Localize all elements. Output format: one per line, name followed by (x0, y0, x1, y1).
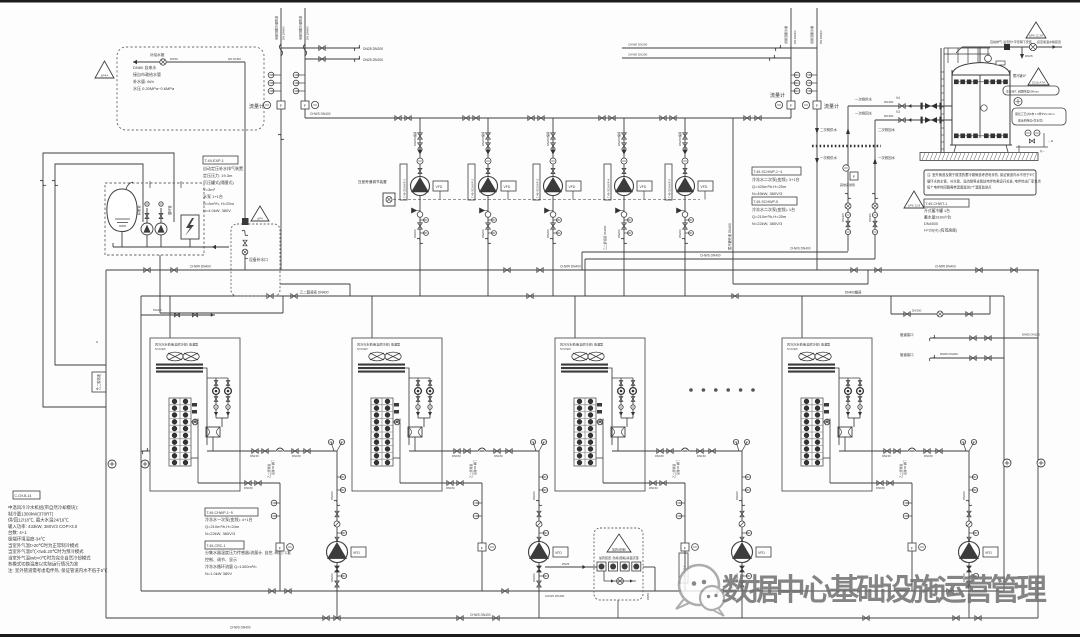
svg-text:自动定压补水排气装置: 自动定压补水排气装置 (203, 165, 243, 171)
svg-text:板换: 板换 (194, 418, 200, 422)
svg-text:二次侧回水: 二次侧回水 (878, 127, 896, 132)
svg-text:CHWE DN200: CHWE DN200 (628, 43, 648, 47)
svg-text:N=22kW, 380V/3: N=22kW, 380V/3 (752, 221, 783, 226)
svg-text:DN200: DN200 (678, 229, 682, 238)
svg-text:注: 室外管道及置于楼顶的蓄冷罐管道考虑电伴热, 保证管道内: 注: 室外管道及置于楼顶的蓄冷罐管道考虑电伴热, 保证管道内水不低于5℃ (927, 172, 1035, 177)
svg-text:N=XXkW: N=XXkW (560, 347, 571, 351)
svg-text:风冷冷水机组(自然冷却) 低温型: 风冷冷水机组(自然冷却) 低温型 (560, 342, 603, 347)
svg-text:T.49-SCHWP-1: T.49-SCHWP-1 (403, 178, 407, 198)
svg-text:CHWS DN400: CHWS DN400 (470, 613, 491, 617)
svg-text:蓄冷罐1F: 蓄冷罐1F (1013, 73, 1026, 78)
svg-text:T.49-SCHWP-3: T.49-SCHWP-3 (536, 178, 540, 198)
svg-text:DN50: DN50 (179, 180, 183, 188)
svg-text:当室外气温0℃<twb.20℃时为预冷模式: 当室外气温0℃<twb.20℃时为预冷模式 (8, 548, 84, 555)
svg-text:板换: 板换 (826, 418, 832, 422)
svg-text:流量计: 流量计 (824, 103, 839, 110)
svg-text:2016.A7A: 2016.A7A (1032, 81, 1045, 85)
svg-text:接屋顶蓄冷罐: 接屋顶蓄冷罐 (783, 26, 788, 44)
svg-text:保温工艺(共4布 1.5厚PVC+5cm: 保温工艺(共4布 1.5厚PVC+5cm (1015, 112, 1055, 116)
svg-text:DN4500: DN4500 (924, 222, 938, 226)
svg-text:CHWS DN400: CHWS DN400 (790, 247, 811, 251)
svg-text:蓄冷罐旁通 DN400: 蓄冷罐旁通 DN400 (727, 223, 732, 250)
svg-text:DN150: DN150 (655, 454, 664, 458)
svg-text:DN200蝶阀: DN200蝶阀 (678, 131, 682, 146)
svg-text:台数: 4+1: 台数: 4+1 (8, 529, 27, 536)
svg-text:一次侧回水: 一次侧回水 (878, 155, 896, 160)
svg-text:气压罐式(隔膜式): 气压罐式(隔膜式) (203, 179, 234, 185)
svg-text:CHWR DN400: CHWR DN400 (560, 265, 581, 269)
svg-text:水泵 1+1台: 水泵 1+1台 (203, 193, 223, 199)
svg-text:风冷冷水机组(自然冷却) 低温型: 风冷冷水机组(自然冷却) 低温型 (155, 342, 198, 347)
svg-text:DN400: DN400 (868, 213, 872, 222)
svg-text:VFD: VFD (985, 551, 992, 555)
svg-text:CHWR DN400: CHWR DN400 (190, 265, 211, 269)
svg-text:T.49-SCHWP-4: T.49-SCHWP-4 (607, 178, 611, 198)
svg-text:N=22kW, 380V/3: N=22kW, 380V/3 (205, 531, 236, 536)
svg-text:DN50: DN50 (148, 180, 152, 188)
svg-text:VFD: VFD (555, 551, 562, 555)
svg-text:每个电伴热回路需带温度监测2个温度监测点: 每个电伴热回路需带温度监测2个温度监测点 (927, 185, 992, 190)
svg-text:DN50: DN50 (646, 592, 650, 600)
svg-text:当室外气温t>20℃时为正常制冷模式: 当室外气温t>20℃时为正常制冷模式 (8, 542, 79, 549)
svg-text:V=3m³: V=3m³ (203, 187, 216, 192)
svg-text:注意带T, 间距所需600mm: 注意带T, 间距所需600mm (1006, 89, 1040, 94)
svg-text:DN25 DN200: DN25 DN200 (363, 47, 383, 51)
svg-text:N=XXkW: N=XXkW (155, 347, 166, 351)
svg-text:当室外气温twb<0℃时为完全自然冷却模式: 当室外气温twb<0℃时为完全自然冷却模式 (8, 554, 91, 561)
svg-text:DN150: DN150 (452, 454, 461, 458)
svg-text:ΔP4: ΔP4 (257, 217, 263, 221)
svg-text:DN150: DN150 (250, 454, 259, 458)
svg-text:DN200蝶阀: DN200蝶阀 (481, 131, 485, 146)
svg-text:N=4.0kW, 380V: N=4.0kW, 380V (203, 208, 231, 213)
svg-text:流量计: 流量计 (770, 92, 785, 99)
svg-text:·接至保温水箱装置: ·接至保温水箱装置 (1036, 39, 1061, 44)
svg-text:板换: 板换 (599, 418, 605, 422)
svg-text:VFD: VFD (640, 185, 647, 189)
svg-text:DN200: DN200 (546, 229, 550, 238)
svg-text:DN150: DN150 (697, 454, 706, 458)
svg-text:DN150: DN150 (876, 486, 885, 490)
svg-text:CHWS DN400: CHWS DN400 (545, 594, 565, 598)
svg-text:循环管: 循环管 (167, 205, 172, 215)
svg-text:Q=210m³/h,H=25m: Q=210m³/h,H=25m (752, 214, 787, 219)
svg-text:ΔP6 12.8: ΔP6 12.8 (908, 204, 921, 208)
svg-text:接屋顶蓄冷罐管道: 接屋顶蓄冷罐管道 (274, 16, 279, 40)
svg-text:DN400: DN400 (153, 308, 162, 312)
svg-text:G=6m³/h, H=25m: G=6m³/h, H=25m (203, 201, 235, 206)
svg-text:其他旁通泵: 其他旁通泵 (840, 182, 855, 187)
svg-text:一次侧供水: 一次侧供水 (855, 97, 873, 102)
svg-text:管道接口: 管道接口 (900, 332, 914, 337)
svg-text:DN200蝶阀: DN200蝶阀 (413, 131, 417, 146)
svg-text:中温风冷冷水机组(带自然冷却模块)：: 中温风冷冷水机组(带自然冷却模块)： (8, 504, 81, 511)
svg-text:二次侧供水: 二次侧供水 (820, 127, 838, 132)
svg-text:流量计: 流量计 (249, 103, 264, 110)
svg-text:Q=420m³/h,H=25m: Q=420m³/h,H=25m (752, 184, 787, 189)
svg-text:DN400蝶阀: DN400蝶阀 (845, 290, 861, 295)
svg-text:DN.DN400: DN.DN400 (306, 26, 310, 40)
svg-text:DN150: DN150 (882, 454, 891, 458)
svg-text:冷冻水一次泵(变频): 4+1台: 冷冻水一次泵(变频): 4+1台 (205, 516, 253, 522)
svg-text:DN.DN400: DN.DN400 (282, 26, 286, 40)
svg-text:输入功率: 433kW, 380V/3 COP>3.0: 输入功率: 433kW, 380V/3 COP>3.0 (8, 523, 78, 530)
svg-text:注: 室外管道需考虑电伴热, 保证管道内水不低于5℃: 注: 室外管道需考虑电伴热, 保证管道内水不低于5℃ (8, 567, 108, 574)
svg-text:VFD: VFD (504, 185, 511, 189)
svg-text:设备补水口: 设备补水口 (249, 257, 268, 262)
svg-text:DN150: DN150 (924, 454, 933, 458)
svg-text:T.49-SCHWP-5: T.49-SCHWP-5 (754, 200, 779, 204)
svg-text:管道接口: 管道接口 (900, 352, 914, 357)
svg-text:V3: V3 (896, 110, 900, 114)
svg-text:冷冻水循环流量 Q=1300m³/h: 冷冻水循环流量 Q=1300m³/h (205, 563, 256, 569)
svg-text:DN200蝶阀: DN200蝶阀 (617, 131, 621, 146)
svg-text:VFD: VFD (436, 185, 443, 189)
svg-text:设备PA 阀门: 设备PA 阀门 (676, 459, 680, 475)
svg-text:DN200: DN200 (617, 229, 621, 238)
svg-text:自动排气·溢流管T字形朝下安装: 自动排气·溢流管T字形朝下安装 (990, 39, 1032, 44)
svg-text:加药(定量): 加药(定量) (612, 547, 626, 552)
svg-text:补水量: 6t/h: 补水量: 6t/h (133, 78, 154, 84)
svg-text:定压压力: 19.3m: 定压压力: 19.3m (203, 172, 233, 178)
svg-text:接自市政给水管: 接自市政给水管 (133, 71, 161, 77)
svg-text:分集水器温度压力传感器/流量计, 自控, 阀门: 1套: 分集水器温度压力传感器/流量计, 自控, 阀门: 1套 (205, 549, 291, 555)
svg-text:DN400: DN400 (884, 114, 894, 118)
svg-text:DN150: DN150 (292, 454, 301, 458)
svg-text:补给水管: 补给水管 (150, 52, 165, 57)
svg-text:DN.DN400: DN.DN400 (819, 30, 823, 44)
svg-text:DN25: DN25 (562, 562, 570, 566)
svg-text:CHWR DN400: CHWR DN400 (935, 265, 956, 269)
svg-text:DN80 DN200: DN80 DN200 (1022, 333, 1040, 337)
svg-text:T.49-SCHWP-5: T.49-SCHWP-5 (668, 178, 672, 198)
svg-text:T.49-EXP-1: T.49-EXP-1 (205, 159, 224, 163)
svg-text:各模式切换温度以实际运行情况为准: 各模式切换温度以实际运行情况为准 (8, 561, 79, 568)
svg-text:玻璃棉保温+防水层): 玻璃棉保温+防水层) (1018, 119, 1043, 123)
svg-text:DN.DN400: DN.DN400 (793, 30, 797, 44)
svg-text:DN200: DN200 (330, 573, 334, 582)
svg-text:DN150: DN150 (494, 454, 503, 458)
svg-text:DN150: DN150 (446, 486, 455, 490)
svg-text:CHWS DN400: CHWS DN400 (230, 626, 251, 630)
svg-text:DN200: DN200 (735, 491, 739, 500)
svg-text:DN25 DN200: DN25 DN200 (363, 58, 383, 62)
svg-text:ΔP4A: ΔP4A (101, 74, 109, 78)
svg-text:Q=210m³/h,H=24m: Q=210m³/h,H=24m (205, 524, 240, 529)
svg-text:DN25: DN25 (1025, 54, 1033, 58)
svg-text:N=45kW, 380V/3: N=45kW, 380V/3 (752, 191, 783, 196)
svg-text:CHWS DN400: CHWS DN400 (700, 254, 721, 258)
svg-text:板换: 板换 (396, 418, 402, 422)
svg-text:DN150: DN150 (649, 486, 658, 490)
svg-text:加药装置, 防腐(阻垢)杀菌灭藻: 加药装置, 防腐(阻垢)杀菌灭藻 (599, 555, 639, 560)
svg-text:N=1.0kW 380V: N=1.0kW 380V (205, 571, 232, 576)
svg-text:T.49-CHWT-1: T.49-CHWT-1 (926, 202, 948, 206)
svg-text:一次侧回水: 一次侧回水 (855, 111, 873, 116)
svg-text:DN200: DN200 (413, 229, 417, 238)
svg-text:VFD: VFD (353, 551, 360, 555)
svg-text:接屋顶蓄冷罐管道: 接屋顶蓄冷罐管道 (298, 16, 303, 40)
svg-text:数据中心基础设施运营管理: 数据中心基础设施运营管理 (722, 574, 1047, 607)
svg-text:C-CH-B-14: C-CH-B-14 (15, 494, 32, 498)
svg-text:压差旁通调节装置: 压差旁通调节装置 (358, 179, 387, 184)
svg-text:T.49-SCHWP-2: T.49-SCHWP-2 (471, 178, 475, 198)
svg-text:VFD: VFD (758, 551, 765, 555)
svg-text:N=XXkW: N=XXkW (787, 347, 798, 351)
svg-text:T.49-CRC-1: T.49-CRC-1 (207, 544, 226, 548)
svg-text:Q←: Q← (1040, 149, 1045, 153)
svg-text:开式蓄冷罐 1台: 开式蓄冷罐 1台 (924, 208, 950, 213)
svg-text:DN.DN50: DN.DN50 (228, 57, 241, 61)
svg-text:T.49-CHWP-1~5: T.49-CHWP-1~5 (207, 511, 233, 515)
svg-text:极端环境温度-34℃: 极端环境温度-34℃ (8, 536, 46, 543)
svg-text:DN50: DN50 (170, 57, 178, 61)
svg-text:DN200: DN200 (481, 229, 485, 238)
svg-text:蓄水量318m³/台: 蓄水量318m³/台 (924, 215, 951, 220)
svg-text:DN80 自来水: DN80 自来水 (133, 64, 156, 70)
svg-text:控制、调节、显示: 控制、调节、显示 (205, 556, 237, 562)
svg-text:VFD: VFD (701, 185, 708, 189)
svg-text:DN400: DN400 (884, 100, 894, 104)
svg-text:风冷冷水机组(自然冷却) 低温型: 风冷冷水机组(自然冷却) 低温型 (787, 342, 830, 347)
svg-text:S: S (96, 340, 98, 344)
svg-text:N=XXkW: N=XXkW (357, 347, 368, 351)
svg-text:冷冻水二次泵(变频): 1台: 冷冻水二次泵(变频): 1台 (752, 206, 795, 212)
svg-text:设备PA 阀门: 设备PA 阀门 (473, 459, 477, 475)
svg-text:DN400: DN400 (841, 213, 845, 222)
svg-text:CHWS DN400: CHWS DN400 (310, 112, 331, 116)
svg-text:CHWE DN200: CHWE DN200 (628, 53, 648, 57)
svg-text:DN200: DN200 (330, 491, 334, 500)
svg-text:←E: ←E (1048, 139, 1053, 143)
svg-text:DN200蝶阀: DN200蝶阀 (546, 131, 550, 146)
svg-text:DN150: DN150 (244, 486, 253, 490)
svg-text:一次侧供水: 一次侧供水 (820, 155, 838, 160)
svg-text:ΔPA 12.2A: ΔPA 12.2A (1029, 34, 1043, 38)
svg-text:DN200: DN200 (532, 491, 536, 500)
svg-text:S: S (96, 387, 98, 391)
svg-text:制冷量1300kW(370RT): 制冷量1300kW(370RT) (8, 510, 54, 517)
svg-text:乙二醇溶液 DN400: 乙二醇溶液 DN400 (300, 290, 329, 295)
svg-text:冷冻水二次泵(变频): 3+1台: 冷冻水二次泵(变频): 3+1台 (752, 176, 800, 182)
svg-text:H=20(H) (有效高度): H=20(H) (有效高度) (924, 228, 958, 233)
svg-text:水压 0.20MPa~0.6MPa: 水压 0.20MPa~0.6MPa (133, 85, 175, 91)
svg-text:循环水的主管、补水管、溢流管等支管处电伴热需设开关量, 电伴: 循环水的主管、补水管、溢流管等支管处电伴热需设开关量, 电伴热由厂家负责 (927, 178, 1042, 183)
svg-text:T.49-SCHWP-1~4: T.49-SCHWP-1~4 (754, 170, 783, 174)
svg-text:DN300: DN300 (912, 309, 922, 313)
svg-text:设备PA 阀门: 设备PA 阀门 (903, 459, 907, 475)
svg-text:风冷冷水机组(自然冷却) 低温型: 风冷冷水机组(自然冷却) 低温型 (357, 342, 400, 347)
svg-text:供/回12/18℃, 最大水温24/19℃: 供/回12/18℃, 最大水温24/19℃ (8, 517, 69, 524)
svg-text:VFD: VFD (569, 185, 576, 189)
svg-text:DN200: DN200 (962, 491, 966, 500)
svg-text:DN200: DN200 (532, 573, 536, 582)
svg-text:DN80 DN200: DN80 DN200 (940, 352, 958, 356)
svg-text:V4: V4 (896, 96, 900, 100)
svg-text:设备PA 阀门: 设备PA 阀门 (271, 459, 275, 475)
svg-text:接屋顶蓄冷罐: 接屋顶蓄冷罐 (809, 26, 814, 44)
svg-text:乙二醇溶液 DN350: 乙二醇溶液 DN350 (602, 225, 607, 250)
